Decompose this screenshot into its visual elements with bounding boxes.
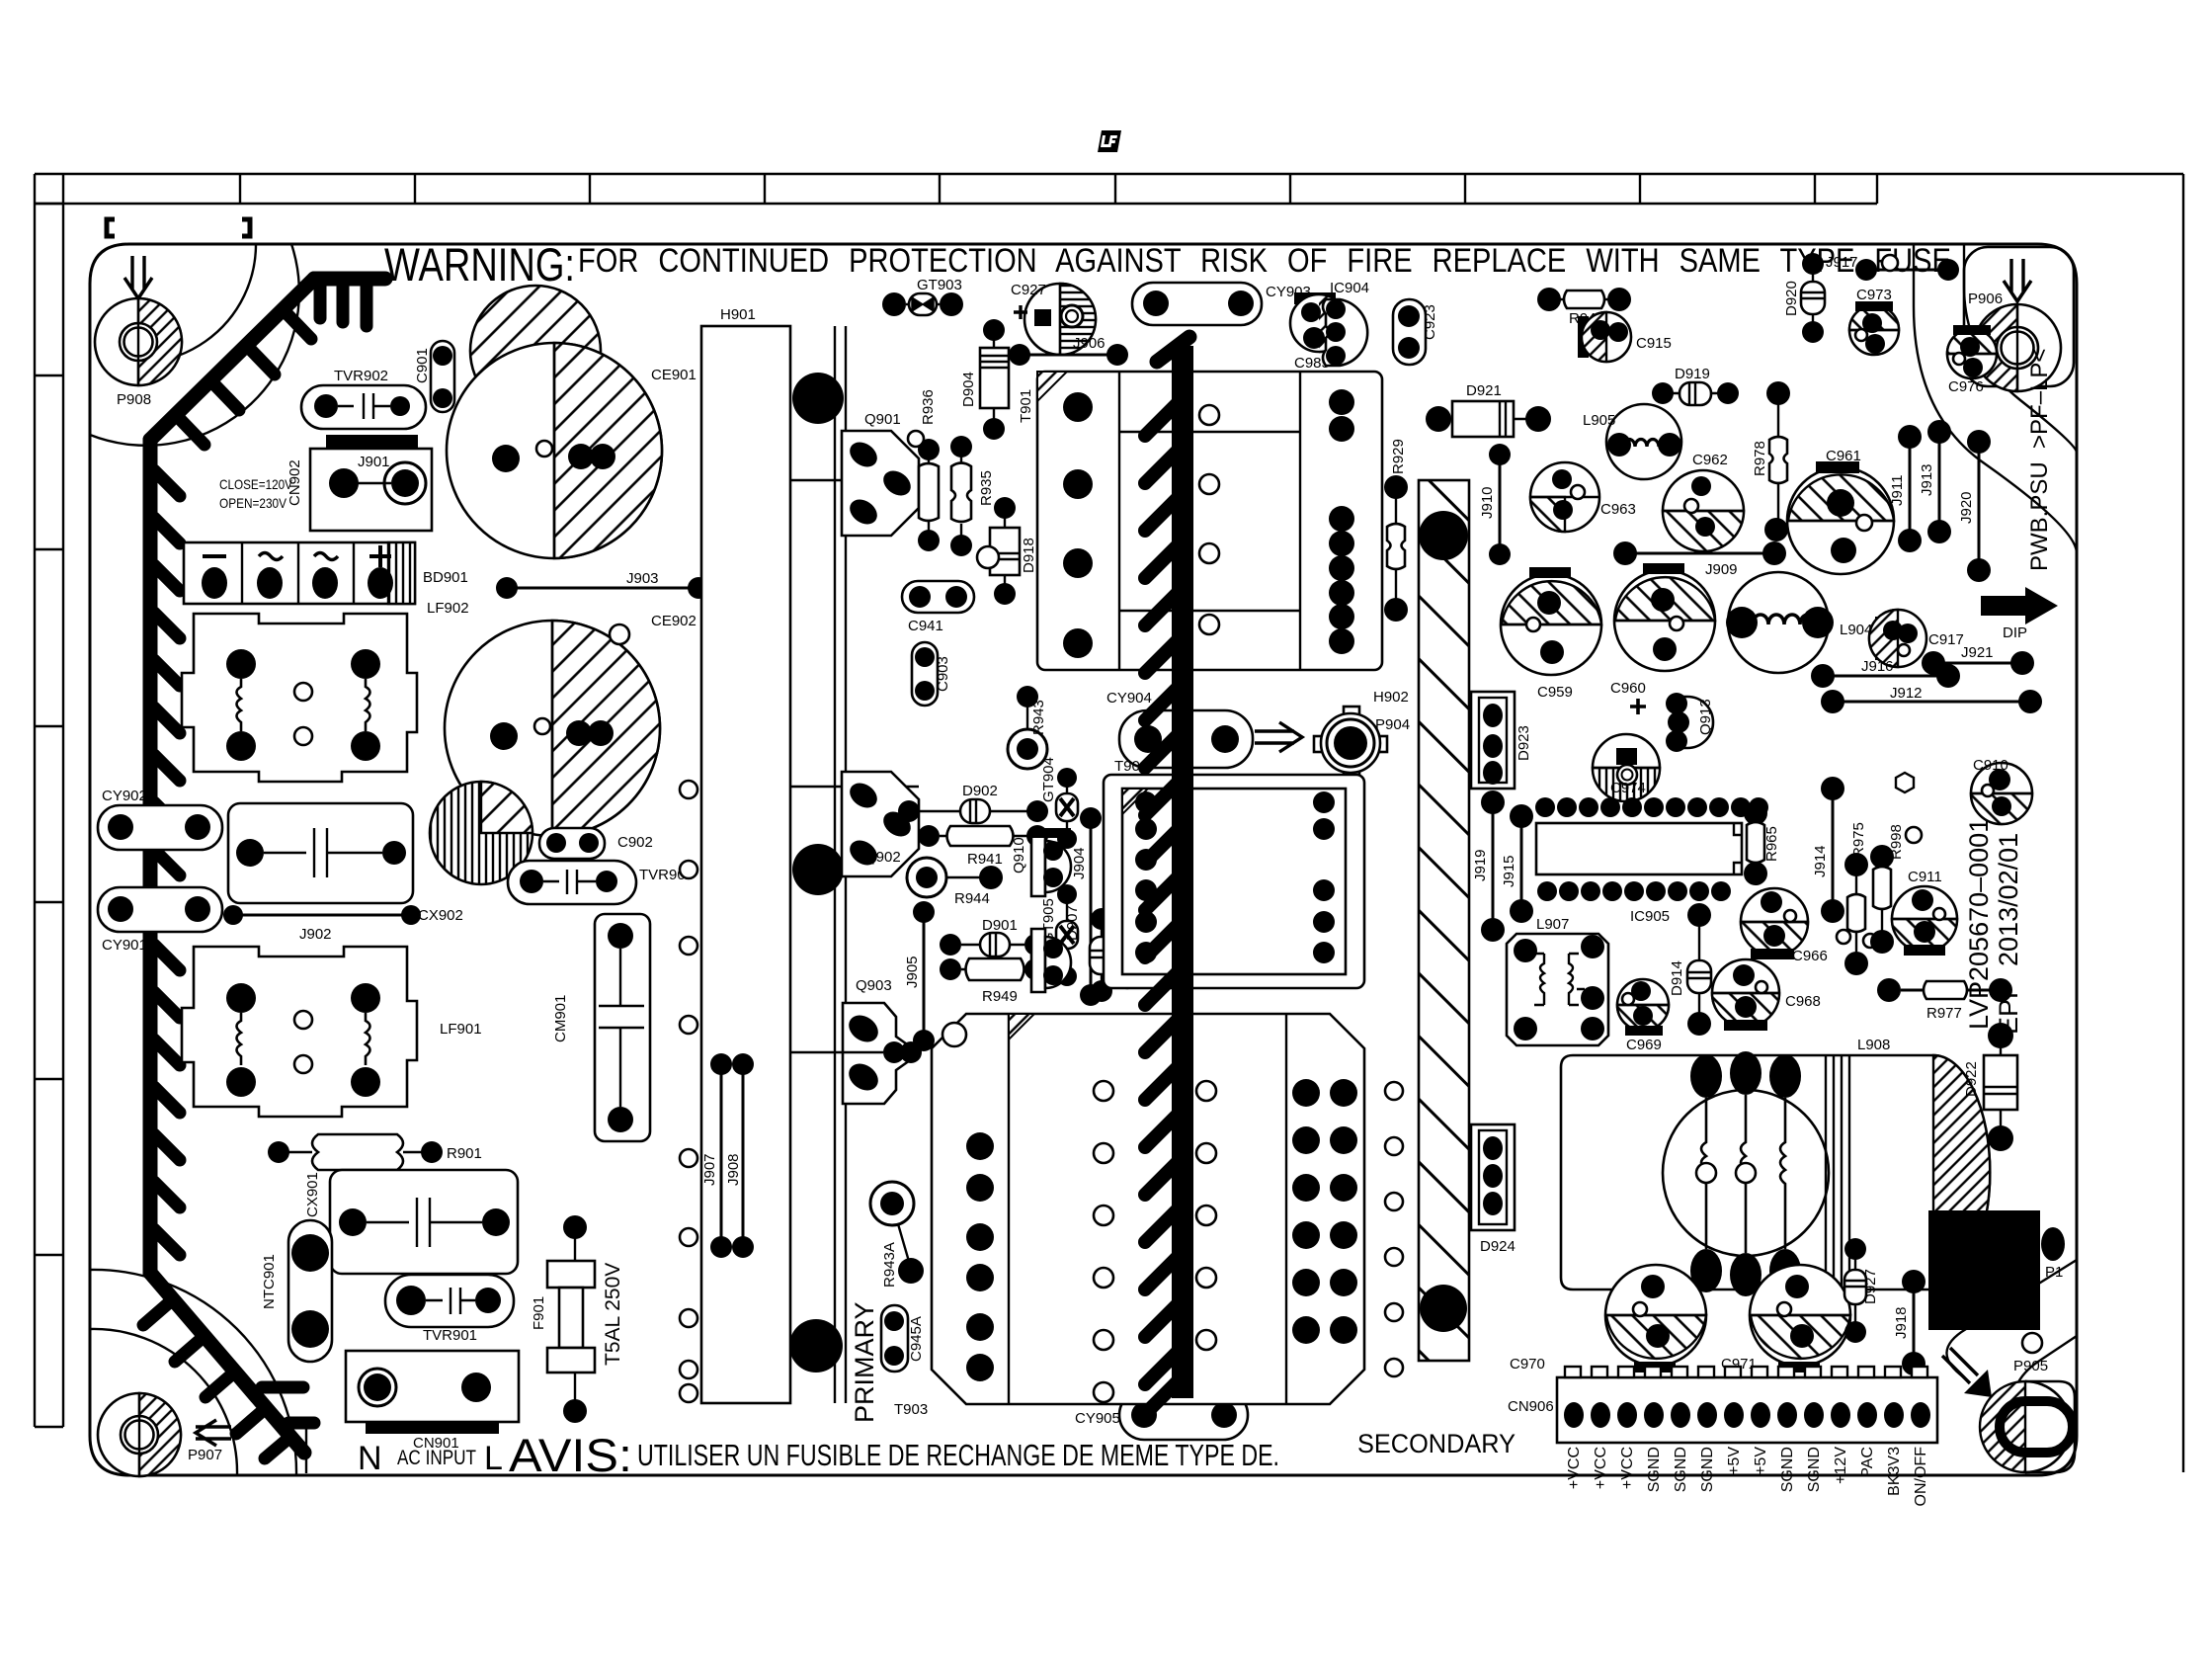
svg-text:C915: C915 — [1636, 335, 1672, 352]
svg-text:D923: D923 — [1516, 725, 1532, 761]
svg-text:D901: D901 — [982, 917, 1018, 934]
wire J913 — [1919, 420, 1951, 543]
capacitor CM901 — [552, 914, 650, 1141]
svg-text:CE902: CE902 — [651, 613, 696, 629]
transformers — [932, 372, 1382, 1404]
photocoupler IC904 — [1290, 280, 1369, 372]
svg-text:L907: L907 — [1536, 916, 1569, 933]
connector P904 — [1255, 707, 1410, 780]
svg-text:C970: C970 — [1510, 1356, 1545, 1373]
wire comb end line — [305, 1425, 307, 1473]
svg-text:D918: D918 — [1021, 538, 1037, 573]
svg-text:J904: J904 — [1071, 847, 1088, 879]
wire J908 — [725, 1053, 754, 1258]
svg-text:CM901: CM901 — [552, 995, 569, 1042]
svg-text:H902: H902 — [1373, 689, 1409, 706]
resistor R965 — [1744, 801, 1780, 885]
wire J918 — [1893, 1270, 1925, 1375]
line filter LF902 — [182, 600, 469, 782]
svg-text:LVP205670–0001: LVP205670–0001 — [1964, 818, 1994, 1030]
svg-text:SGND: SGND — [1646, 1447, 1663, 1492]
diode D918 — [977, 497, 1037, 605]
resistor R978 — [1752, 381, 1790, 541]
svg-text:SGND: SGND — [1673, 1447, 1689, 1492]
capacitor C903 — [912, 642, 951, 706]
svg-text:BK3V3: BK3V3 — [1886, 1447, 1903, 1496]
capacitor C945 hatched — [430, 782, 533, 884]
svg-text:CX901: CX901 — [304, 1172, 321, 1217]
svg-text:J913: J913 — [1919, 463, 1935, 496]
wire J915 — [1501, 804, 1533, 923]
title strip top — [35, 174, 2183, 1472]
svg-text:J914: J914 — [1812, 845, 1829, 877]
transformer T901 — [1018, 372, 1382, 670]
wire comb bottom diagonal — [150, 1273, 304, 1453]
wire J902 — [223, 905, 421, 943]
panel break bottom right near P905 — [1946, 1260, 2077, 1377]
svg-text:J915: J915 — [1501, 855, 1517, 887]
resistor R944 — [907, 858, 1003, 907]
resistor R935 — [950, 436, 995, 556]
connector P1 — [1928, 1210, 2065, 1330]
svg-text:J911: J911 — [1889, 475, 1906, 506]
capacitor CX902 — [228, 803, 463, 924]
svg-text:CY902: CY902 — [102, 788, 147, 804]
capacitor CY901 — [98, 887, 222, 954]
svg-text:C945A: C945A — [908, 1316, 925, 1362]
svg-text:C976: C976 — [1948, 378, 1984, 395]
svg-text:Q903: Q903 — [856, 977, 892, 994]
svg-text:J912: J912 — [1890, 685, 1923, 702]
spark gap GT903 — [882, 277, 963, 316]
svg-text:R978: R978 — [1752, 441, 1768, 476]
capacitor C962 — [1663, 452, 1744, 551]
wire J911 — [1889, 425, 1922, 552]
capacitor C966 — [1741, 888, 1828, 964]
svg-text:D919: D919 — [1675, 366, 1710, 382]
svg-text:C911: C911 — [1908, 869, 1942, 885]
capacitor C940 hatched — [470, 286, 601, 416]
svg-text:J909: J909 — [1705, 561, 1738, 578]
capacitor C971 — [1721, 1265, 1850, 1373]
resistor R947 — [1537, 288, 1631, 327]
svg-text:IC904: IC904 — [1330, 280, 1369, 296]
varistor TVR902 — [301, 368, 426, 429]
svg-text:CLOSE=120V: CLOSE=120V — [219, 476, 293, 492]
thermistor NTC901 — [261, 1220, 332, 1362]
svg-text:LF902: LF902 — [427, 600, 469, 617]
svg-text:WARNING:: WARNING: — [384, 238, 575, 291]
svg-text:R943A: R943A — [881, 1242, 898, 1288]
svg-text:C974: C974 — [1610, 780, 1646, 796]
capacitor C910 — [1896, 757, 2032, 824]
svg-text:P904: P904 — [1375, 716, 1410, 733]
svg-text:SECONDARY: SECONDARY — [1357, 1429, 1516, 1458]
transistor Q901 — [842, 411, 919, 536]
transistor C985 body — [1323, 299, 1367, 366]
resistor R949 — [940, 958, 1046, 1005]
diode D919 — [1652, 366, 1739, 405]
svg-text:P908: P908 — [117, 391, 151, 408]
wire J916 — [1811, 658, 1960, 688]
svg-text:OPEN=230V: OPEN=230V — [219, 495, 287, 511]
capacitor C945A — [881, 1305, 925, 1372]
capacitor C976 — [1947, 325, 1997, 395]
svg-text:SGND: SGND — [1806, 1447, 1823, 1492]
svg-text:C968: C968 — [1785, 993, 1821, 1010]
wire J904 — [1071, 807, 1102, 1006]
jumper J901 / connector CN902 — [219, 435, 432, 531]
svg-text:R935: R935 — [978, 470, 995, 506]
connector CN901 — [346, 1351, 519, 1452]
inductor L904 / capacitor C917 — [1840, 610, 1964, 667]
svg-text:CE901: CE901 — [651, 367, 696, 383]
varistor TVR903 — [508, 861, 694, 904]
wire J905 — [904, 901, 935, 1051]
svg-text:PRIMARY: PRIMARY — [850, 1301, 879, 1423]
capacitor CE902 — [445, 613, 696, 836]
svg-text:C963: C963 — [1600, 501, 1636, 518]
svg-text:IC905: IC905 — [1630, 908, 1670, 925]
resistor R943A — [870, 1182, 924, 1288]
svg-text:J907: J907 — [701, 1153, 718, 1186]
svg-text:SGND: SGND — [1699, 1447, 1716, 1492]
transformer T903 — [932, 1014, 1364, 1404]
svg-text:H901: H901 — [720, 306, 756, 323]
resistor R936 — [908, 389, 940, 551]
via rings H901 — [680, 781, 697, 1402]
svg-text:T903: T903 — [894, 1401, 928, 1418]
ring on break line — [2022, 1333, 2042, 1353]
svg-text:L: L — [484, 1440, 503, 1477]
svg-text:P906: P906 — [1968, 291, 2003, 307]
ic IC905 — [1535, 797, 1768, 925]
transistor Q911 — [1031, 929, 1136, 992]
wire J907 — [701, 1053, 732, 1258]
svg-text:R965: R965 — [1763, 826, 1780, 862]
svg-text:J917: J917 — [1826, 254, 1858, 271]
keepout arcs bottom-left — [90, 1329, 237, 1475]
svg-text:C961: C961 — [1826, 448, 1861, 464]
comb isolation line — [143, 279, 385, 1458]
inductor L905 — [1583, 404, 1681, 479]
resistor R941 — [918, 825, 1048, 868]
resistor R975 — [1837, 822, 1877, 975]
svg-text:+12V: +12V — [1833, 1447, 1849, 1484]
svg-text:J916: J916 — [1861, 658, 1894, 675]
svg-text:R949: R949 — [982, 988, 1018, 1005]
spark gap GT905 — [1040, 884, 1078, 986]
inductor L906 — [1726, 572, 1834, 673]
svg-text:R943: R943 — [1030, 700, 1047, 735]
svg-text:D924: D924 — [1480, 1238, 1516, 1255]
resistor R977 — [1877, 978, 2012, 1022]
center components — [701, 277, 1438, 1440]
alignment brackets — [107, 219, 115, 236]
logo — [1098, 130, 1121, 152]
svg-text:J910: J910 — [1479, 486, 1496, 519]
capacitor C963 — [1530, 462, 1636, 532]
svg-text:P907: P907 — [188, 1447, 222, 1463]
spark gap GT904 — [1040, 757, 1078, 849]
wire J919 — [1472, 790, 1505, 942]
svg-text:R929: R929 — [1390, 439, 1407, 474]
screw P906 — [1964, 247, 2074, 391]
capacitor C927 — [1011, 282, 1096, 355]
capacitor C973 — [1849, 287, 1899, 355]
svg-text:D904: D904 — [960, 372, 977, 407]
svg-text:+VCC: +VCC — [1593, 1447, 1609, 1489]
diode module D923 — [1471, 692, 1532, 789]
wire comb vertical — [143, 440, 158, 1273]
capacitor C970 — [1510, 1265, 1706, 1373]
svg-text:J902: J902 — [299, 926, 332, 943]
svg-text:Q910: Q910 — [1011, 837, 1027, 874]
wire comb top diagonal — [150, 279, 314, 440]
heatsink H902 — [1373, 480, 1469, 1361]
wire J920 — [1958, 430, 1991, 582]
svg-text:FOR CONTINUED PROTECTION AGAIN: FOR CONTINUED PROTECTION AGAINST RISK OF… — [578, 242, 1959, 280]
svg-text:P1: P1 — [2045, 1264, 2063, 1281]
svg-text:L905: L905 — [1583, 412, 1615, 429]
svg-text:R941: R941 — [967, 851, 1003, 868]
resistor R943 — [1008, 686, 1047, 769]
diode D904 — [960, 319, 1009, 440]
svg-text:UTILISER UN FUSIBLE DE RECHANG: UTILISER UN FUSIBLE DE RECHANGE DE MEME … — [637, 1438, 1279, 1472]
svg-text:D902: D902 — [962, 783, 998, 799]
capacitor CY905 — [1075, 1390, 1248, 1440]
svg-text:D922: D922 — [1963, 1061, 1980, 1097]
via rings right of T903 — [1385, 1082, 1403, 1376]
svg-text:T5AL 250V: T5AL 250V — [602, 1263, 624, 1366]
svg-text:C966: C966 — [1792, 948, 1828, 964]
svg-text:TVR901: TVR901 — [423, 1327, 477, 1344]
wire J914 — [1812, 777, 1844, 923]
capacitor C974 — [1593, 734, 1660, 801]
diode D922 — [1963, 1023, 2017, 1151]
capacitor C941 — [902, 581, 974, 634]
svg-text:CN906: CN906 — [1508, 1398, 1554, 1415]
svg-text:R936: R936 — [920, 389, 937, 425]
wire J917 — [1826, 254, 1959, 281]
capacitor C923 — [1393, 299, 1438, 365]
capacitor C915 — [1578, 312, 1672, 362]
svg-text:J918: J918 — [1893, 1306, 1910, 1339]
diode D901 — [940, 917, 1046, 957]
capacitor C968 — [1712, 959, 1821, 1031]
svg-text:C902: C902 — [617, 834, 653, 851]
resistor R929 — [1384, 439, 1408, 622]
wire J903 — [496, 570, 709, 644]
svg-text:J901: J901 — [358, 454, 390, 470]
left strip rows — [35, 204, 63, 1427]
transistor Q903 — [790, 977, 922, 1104]
fuse F901 — [531, 1215, 624, 1423]
wire J909 — [1613, 541, 1786, 578]
inductor L908 — [1561, 1037, 1990, 1296]
svg-text:J908: J908 — [725, 1153, 742, 1186]
board outline — [90, 244, 2077, 1475]
svg-text:C960: C960 — [1610, 680, 1646, 697]
diode D921 — [1426, 382, 1551, 437]
svg-text:C910: C910 — [1973, 757, 2008, 774]
screw P908 — [95, 256, 182, 408]
svg-text:R998: R998 — [1888, 824, 1905, 860]
varistor TVR901 — [385, 1275, 514, 1344]
right components — [1373, 253, 2042, 1361]
svg-text:C927: C927 — [1011, 282, 1046, 298]
diode D908 — [1135, 817, 1170, 906]
wire J912 — [1821, 685, 2042, 713]
bottom right — [1508, 1210, 2065, 1506]
resistor R998 — [1870, 824, 1922, 954]
svg-text:J905: J905 — [904, 956, 921, 988]
svg-text:F901: F901 — [531, 1296, 547, 1330]
svg-text:C969: C969 — [1626, 1037, 1662, 1053]
bridge rectifier BD901 — [184, 542, 468, 604]
transformer T902 — [1104, 758, 1364, 988]
heatsink H901 — [701, 306, 919, 1403]
svg-text:D914: D914 — [1669, 960, 1685, 996]
svg-text:+5V: +5V — [1753, 1447, 1769, 1475]
isolation barrier line — [1172, 346, 1193, 1398]
svg-text:J903: J903 — [626, 570, 659, 587]
keepout arcs top-left — [97, 244, 256, 363]
svg-text:PAC: PAC — [1859, 1447, 1876, 1478]
svg-text:J906: J906 — [1073, 335, 1106, 352]
svg-text:R944: R944 — [954, 890, 990, 907]
svg-text:+VCC: +VCC — [1619, 1447, 1636, 1489]
left primary components — [98, 286, 709, 1452]
line filter LF901 — [182, 947, 482, 1117]
barrier — [1145, 337, 1189, 1411]
svg-text:D921: D921 — [1466, 382, 1502, 399]
svg-text:EPP 2013/02/01: EPP 2013/02/01 — [1994, 833, 2023, 1035]
svg-text:N: N — [358, 1440, 382, 1477]
capacitor C961 — [1787, 448, 1894, 574]
svg-text:CX902: CX902 — [418, 907, 463, 924]
svg-text:CY901: CY901 — [102, 937, 147, 954]
svg-text:TVR902: TVR902 — [334, 368, 388, 384]
capacitor CY903 — [1132, 283, 1311, 325]
capacitor CX901 — [304, 1170, 518, 1274]
svg-text:CY904: CY904 — [1106, 690, 1152, 707]
svg-text:NTC901: NTC901 — [261, 1254, 278, 1309]
svg-text:C903: C903 — [935, 656, 951, 692]
diode D927 — [1844, 1238, 1879, 1343]
transformer L907 — [1507, 916, 1608, 1045]
resistor R901 — [268, 1134, 482, 1170]
diode module D924 — [1471, 1124, 1516, 1255]
capacitor C911 — [1892, 869, 1957, 956]
svg-text:CY905: CY905 — [1075, 1410, 1120, 1427]
capacitor CE901 — [447, 343, 696, 558]
svg-text:GT904: GT904 — [1040, 757, 1057, 802]
corner screws — [95, 247, 2075, 1476]
svg-text:J921: J921 — [1961, 644, 1994, 661]
capacitor C901 — [414, 341, 454, 412]
transistor Q910 — [1011, 828, 1071, 896]
screw P907 — [98, 1393, 231, 1476]
svg-text:SGND: SGND — [1779, 1447, 1796, 1492]
svg-text:D920: D920 — [1783, 281, 1800, 316]
capacitor CY904 — [1106, 690, 1253, 768]
screw P905 — [1942, 1348, 2075, 1472]
capacitor C959 — [1501, 567, 1601, 701]
capacitor C969 — [1617, 979, 1669, 1053]
svg-text:C901: C901 — [414, 348, 431, 383]
transistor Q902 — [842, 772, 919, 876]
svg-text:R977: R977 — [1926, 1005, 1962, 1022]
wire J910 — [1479, 444, 1511, 565]
svg-text:R975: R975 — [1850, 822, 1867, 858]
svg-text:DIP: DIP — [2003, 624, 2027, 641]
svg-text:D927: D927 — [1862, 1269, 1879, 1304]
svg-text:L908: L908 — [1857, 1037, 1890, 1053]
diode D907 — [1064, 905, 1113, 1002]
svg-text:J919: J919 — [1472, 849, 1489, 881]
svg-text:P905: P905 — [2013, 1358, 2048, 1374]
svg-text:C941: C941 — [908, 618, 943, 634]
svg-text:AVIS:: AVIS: — [509, 1429, 632, 1481]
svg-text:J920: J920 — [1958, 491, 1975, 524]
svg-text:T901: T901 — [1018, 389, 1034, 423]
svg-text:C923: C923 — [1422, 304, 1438, 340]
diode D902 — [898, 783, 1048, 823]
svg-text:C962: C962 — [1692, 452, 1728, 468]
svg-text:C917: C917 — [1928, 631, 1964, 648]
svg-text:CN901: CN901 — [413, 1435, 459, 1452]
wire J921 — [1922, 644, 2034, 675]
connector CN906 — [1508, 1367, 1937, 1506]
svg-text:BD901: BD901 — [423, 569, 468, 586]
capacitor CY902 — [98, 788, 222, 850]
svg-text:C973: C973 — [1856, 287, 1892, 303]
arrow DIP — [1981, 587, 2058, 624]
svg-text:+5V: +5V — [1726, 1447, 1743, 1475]
wire comb top horizontal — [314, 272, 385, 287]
big warning texts — [358, 238, 2058, 1481]
wire J906 — [1009, 335, 1128, 366]
panel break curves top right — [1914, 244, 2077, 553]
svg-text:ON/OFF: ON/OFF — [1913, 1447, 1929, 1507]
svg-text:GT903: GT903 — [917, 277, 962, 293]
diode D920 — [1783, 253, 1825, 343]
transistor Q913 — [1666, 693, 1714, 752]
capacitor C902 — [539, 828, 653, 859]
svg-text:LF901: LF901 — [440, 1021, 482, 1038]
svg-text:D907: D907 — [1064, 905, 1081, 941]
svg-text:Q901: Q901 — [864, 411, 901, 428]
svg-text:Q913: Q913 — [1697, 699, 1714, 735]
svg-text:L904: L904 — [1840, 622, 1872, 638]
capacitor C960 — [1610, 563, 1715, 714]
svg-text:Q902: Q902 — [864, 849, 901, 866]
svg-text:+VCC: +VCC — [1566, 1447, 1583, 1489]
svg-text:PWB.PSU >PF–LP<: PWB.PSU >PF–LP< — [2026, 349, 2053, 571]
svg-text:R901: R901 — [447, 1145, 482, 1162]
diode D914 — [1669, 903, 1711, 1036]
svg-text:C959: C959 — [1537, 684, 1573, 701]
